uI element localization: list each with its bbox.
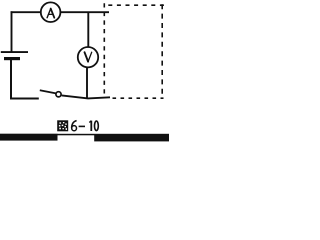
caption character 图 (drawn) — [57, 120, 68, 131]
caption dash — [79, 125, 85, 127]
ammeter A1 circle — [41, 2, 61, 22]
battery long plate (positive) — [1, 51, 28, 53]
caption digit 0 — [95, 121, 99, 131]
wire: left vertical from top run down to battery — [11, 11, 13, 52]
ammeter label A — [47, 9, 54, 18]
wire: voltmeter branch lower — [86, 67, 88, 98]
switch pivot circle — [56, 92, 61, 97]
bottom scan bar left — [0, 134, 58, 141]
battery short thick plate (negative) — [4, 57, 20, 60]
wire: battery negative down to bottom run — [10, 59, 12, 100]
dashed box right edge — [161, 4, 163, 95]
dashed box top edge — [108, 4, 165, 6]
caption digit 6 — [72, 121, 77, 131]
bottom scan rule thin line — [0, 134, 169, 136]
dashed box bottom edge — [113, 97, 164, 99]
wire: top run from battery to dashed box — [11, 11, 109, 13]
voltmeter label V — [85, 52, 92, 61]
switch blade (open) — [40, 90, 56, 93]
wire: bottom-left run to switch contact — [10, 98, 39, 100]
wire: voltmeter branch upper — [87, 12, 89, 47]
caption digit 1 — [89, 121, 91, 131]
dashed box left edge — [103, 3, 105, 96]
voltmeter V1 circle — [78, 47, 98, 67]
wire: bottom-right run from switch to dashed box — [62, 95, 110, 98]
bottom scan bar right — [94, 134, 169, 141]
